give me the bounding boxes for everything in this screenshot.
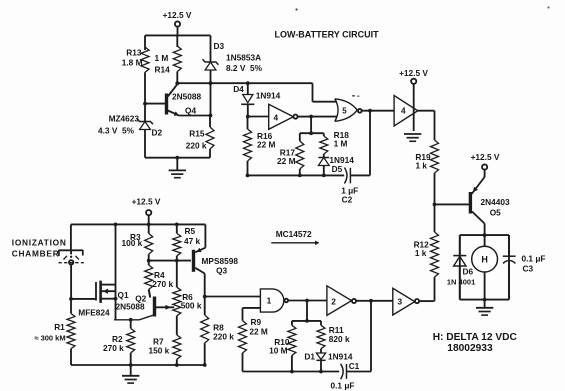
svg-text:820 k: 820 k [329, 334, 350, 344]
svg-text:D1: D1 [304, 352, 315, 362]
svg-text:2N5088: 2N5088 [172, 91, 201, 101]
svg-text:C2: C2 [342, 195, 353, 205]
svg-text:1N5853A: 1N5853A [226, 53, 261, 63]
svg-text:MZ4623: MZ4623 [109, 114, 140, 124]
svg-text:2N4403: 2N4403 [481, 197, 510, 207]
svg-text:22 M: 22 M [257, 140, 276, 150]
svg-text:0.1 μF: 0.1 μF [522, 254, 546, 264]
svg-text:220 k: 220 k [186, 141, 207, 151]
svg-text:IONIZATION: IONIZATION [12, 237, 67, 247]
svg-text:+12.5 V: +12.5 V [399, 68, 428, 78]
svg-text:3: 3 [397, 296, 402, 306]
svg-text:H: DELTA 12 VDC: H: DELTA 12 VDC [433, 332, 518, 343]
svg-text:1 k: 1 k [415, 248, 427, 258]
svg-text:270 k: 270 k [152, 279, 173, 289]
svg-text:R14: R14 [155, 65, 171, 75]
svg-text:5: 5 [342, 107, 347, 116]
svg-text:R1: R1 [54, 322, 65, 332]
svg-text:270 k: 270 k [103, 343, 124, 353]
svg-text:R5: R5 [185, 226, 196, 236]
svg-text:18002933: 18002933 [447, 343, 493, 354]
svg-text:D3: D3 [214, 41, 225, 51]
svg-text:1 M: 1 M [334, 139, 348, 149]
svg-text:2: 2 [331, 297, 336, 307]
svg-text:R13: R13 [126, 48, 142, 58]
svg-text:1 k: 1 k [415, 161, 427, 171]
svg-text:4.3 V 5%: 4.3 V 5% [98, 126, 135, 136]
svg-text:22 M: 22 M [249, 326, 268, 336]
svg-text:0.1 μF: 0.1 μF [331, 380, 355, 390]
svg-text:4: 4 [401, 106, 406, 116]
svg-text:CHAMBER: CHAMBER [12, 248, 60, 258]
svg-text:MC14572: MC14572 [276, 229, 312, 239]
svg-text:C3: C3 [523, 264, 534, 274]
svg-text:D2: D2 [152, 128, 163, 138]
svg-text:47 k: 47 k [184, 236, 201, 246]
svg-text:2N5088: 2N5088 [116, 302, 145, 312]
svg-text:150 k: 150 k [149, 346, 170, 356]
svg-text:1N 4001: 1N 4001 [447, 278, 475, 287]
svg-text:8.2 V 5%: 8.2 V 5% [226, 63, 263, 73]
svg-text:220 k: 220 k [213, 332, 234, 342]
svg-text:D4: D4 [233, 84, 244, 94]
svg-text:1 M: 1 M [155, 53, 169, 63]
svg-text:4: 4 [273, 112, 278, 122]
svg-text:1.8 M: 1.8 M [122, 58, 143, 68]
svg-text:10 M: 10 M [269, 346, 288, 356]
svg-text:+12.5 V: +12.5 V [132, 197, 161, 207]
svg-text:≈ 300 kM: ≈ 300 kM [34, 333, 65, 342]
svg-text:Q3: Q3 [216, 265, 227, 275]
svg-text:R15: R15 [189, 129, 205, 139]
svg-text:MFE824: MFE824 [78, 308, 110, 318]
svg-text:500 k: 500 k [181, 301, 202, 311]
svg-text:D6: D6 [463, 267, 474, 277]
svg-text:100 k: 100 k [122, 238, 143, 248]
svg-text:H: H [481, 255, 488, 265]
svg-text:C1: C1 [349, 361, 360, 371]
svg-text:1: 1 [267, 296, 272, 306]
svg-text:LOW-BATTERY CIRCUIT: LOW-BATTERY CIRCUIT [275, 29, 380, 39]
svg-text:O5: O5 [490, 208, 501, 218]
svg-text:+12.5 V: +12.5 V [471, 152, 500, 162]
svg-text:22 M: 22 M [277, 156, 296, 166]
svg-text:Q1: Q1 [118, 290, 129, 300]
svg-text:Q4: Q4 [185, 106, 196, 116]
svg-text:+12.5 V: +12.5 V [163, 10, 192, 20]
svg-text:D5: D5 [332, 164, 343, 174]
svg-text:MPS8598: MPS8598 [202, 256, 239, 266]
svg-text:1N914: 1N914 [256, 91, 281, 101]
